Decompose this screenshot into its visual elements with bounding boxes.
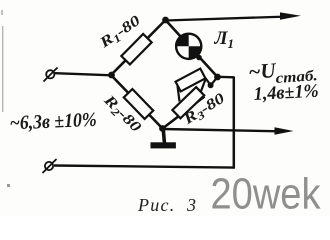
scan edge artifact left [1, 10, 10, 187]
svg-text:Л1: Л1 [214, 28, 235, 51]
svg-text:~U: ~U [248, 58, 279, 84]
svg-text:20wek: 20wek [211, 170, 322, 217]
resistor R3 lower [172, 87, 204, 118]
wire input upper (terminal to left node) [55, 73, 112, 75]
wire node B to node A [206, 77, 218, 85]
terminal lower-left input [43, 159, 57, 173]
node bottom [159, 125, 166, 132]
wire arm lamp (top node to right node A) [166, 20, 218, 77]
resistor R2 [124, 89, 153, 119]
wire output top with arrow [166, 12, 302, 20]
wire arm R1 (left node to top node) [111, 20, 166, 75]
svg-text:Рис. 3: Рис. 3 [137, 195, 196, 215]
node left [108, 72, 115, 79]
wire right vertical [233, 77, 236, 169]
resistor R3 upper (parallel) [176, 69, 206, 92]
svg-text:1,4в±1%: 1,4в±1% [253, 81, 319, 105]
resistor R1 [121, 34, 151, 64]
lamp U1 [176, 34, 201, 59]
node lamp exit [196, 55, 202, 61]
wire arm R3 (bottom node toward right) [163, 97, 205, 129]
node right B [208, 82, 214, 88]
svg-text:~6,3в ±10%: ~6,3в ±10% [9, 109, 97, 135]
wire jumper left of R3 pair [178, 86, 180, 102]
wire jumper right of R3 pair [201, 79, 206, 93]
wire arm R2 (left node to bottom node) [111, 75, 163, 129]
wire bottom (lower terminal to right vertical) [54, 166, 235, 168]
terminal upper-left input [44, 68, 58, 82]
node right A [214, 74, 221, 81]
wire right node A to corner [218, 76, 235, 79]
ground [151, 129, 176, 149]
wire output middle with arrow [163, 127, 294, 135]
node top [162, 17, 169, 24]
